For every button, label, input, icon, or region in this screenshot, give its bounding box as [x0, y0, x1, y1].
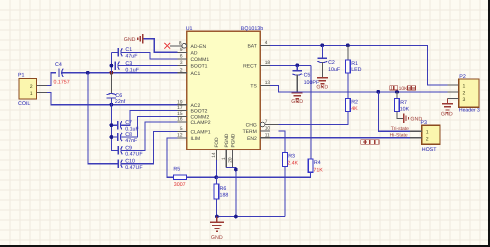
capacitor C9	[118, 145, 143, 157]
resistor R3	[283, 153, 299, 167]
wire FOD pin to node	[215, 160, 217, 177]
U1 pin 16 stub	[177, 117, 187, 123]
svg-text:47nF: 47nF	[125, 138, 138, 144]
wire AC2 bus down to C7/C8/C9	[111, 105, 117, 151]
svg-text:R7: R7	[400, 100, 407, 106]
wire C9 to CLAMP2 (pin 16)	[121, 122, 177, 150]
svg-text:18: 18	[265, 60, 271, 66]
wire R5 to FOD node	[186, 176, 216, 178]
svg-text:4K: 4K	[351, 106, 358, 112]
wire PGND pins to GND rail	[226, 167, 236, 216]
ground GND (under C5)	[291, 93, 303, 105]
U1 pin 4 stub	[260, 40, 270, 46]
connector P1 (COIL)	[18, 73, 37, 107]
wire C8 to COMM2 (pin 15)	[121, 116, 178, 137]
U1 pin 20 (PGND) stub	[227, 150, 233, 168]
svg-text:C5: C5	[304, 73, 311, 79]
U1 pin 6 stub	[178, 54, 187, 60]
svg-text:TS: TS	[250, 84, 257, 90]
U1 pin 7 stub	[260, 119, 278, 127]
no-connect X on pin 8	[164, 43, 170, 49]
wire RECT (pin 18)	[270, 64, 311, 66]
wire C3 to BOOT1 (pin 3)	[118, 65, 177, 67]
svg-text:13: 13	[265, 80, 271, 86]
svg-text:CHG: CHG	[246, 123, 257, 129]
svg-text:GND: GND	[316, 84, 328, 90]
P1 pin 2 stub	[37, 84, 48, 86]
svg-text:COMM1: COMM1	[191, 57, 210, 63]
svg-text:0.47UF: 0.47UF	[125, 152, 143, 158]
svg-text:LED: LED	[351, 67, 361, 73]
capacitor C4	[54, 62, 70, 86]
wire R3 to GND rail	[284, 167, 286, 217]
capacitor C6 (AC1-AC2)	[107, 73, 126, 105]
svg-text:20: 20	[227, 157, 233, 163]
svg-text:R5: R5	[173, 166, 180, 172]
U1 left pin names	[191, 44, 211, 142]
wire BAT to R1	[347, 45, 349, 60]
svg-text:BOOT1: BOOT1	[191, 64, 208, 70]
wire R6 bottom to GND rail	[215, 199, 217, 217]
svg-text:2: 2	[30, 84, 33, 90]
ground GND (under C2)	[316, 78, 328, 91]
svg-text:1: 1	[426, 129, 429, 135]
svg-text:GND: GND	[441, 111, 453, 117]
svg-text:2: 2	[426, 137, 429, 143]
wire RECT to R4	[310, 65, 312, 159]
wire R7 to GND bar	[397, 112, 403, 119]
wire bus C1/C3 to AC1	[110, 52, 112, 72]
U1 pin 17 stub	[177, 105, 187, 111]
P1 pin 1 stub	[37, 92, 48, 94]
wire GND to AD (pin 9)	[144, 39, 178, 53]
svg-text:11: 11	[265, 132, 270, 138]
U1 pin 15 stub	[177, 111, 187, 117]
svg-text:3007: 3007	[174, 182, 186, 188]
wire C1 to COMM1 (pin 6)	[121, 52, 177, 59]
U1 pin 18 stub	[260, 60, 270, 66]
svg-text:P2: P2	[459, 74, 466, 80]
svg-text:0.1uF: 0.1uF	[125, 67, 139, 73]
svg-text:0.1757: 0.1757	[54, 80, 70, 86]
wire C7 to BOOT2 (pin 17)	[121, 111, 178, 126]
svg-text:Tri-state: Tri-state	[391, 126, 409, 132]
svg-text:2: 2	[463, 90, 466, 96]
wire C10 to CLAMP1 (pin 5)	[121, 131, 177, 163]
junction TS/P3 branch	[376, 90, 380, 94]
U1 pin 9 stub	[178, 47, 187, 53]
junction GND rail / PGND	[234, 215, 238, 219]
svg-text:16: 16	[177, 117, 183, 123]
svg-text:R6: R6	[220, 186, 227, 192]
wire FOD node to R4 bottom	[216, 172, 310, 177]
svg-text:TERM: TERM	[243, 129, 257, 135]
wire P1.1 to AC2 net (pin 19)	[47, 93, 177, 105]
wire P1.2 to C4	[47, 73, 56, 86]
svg-text:17: 17	[177, 105, 183, 111]
ground GND (power bar, right of R7)	[404, 114, 423, 123]
capacitor C2	[318, 45, 341, 77]
svg-text:PGND: PGND	[231, 133, 237, 147]
svg-text:AC1: AC1	[191, 71, 201, 77]
wire TS to R7	[396, 92, 398, 99]
svg-text:4: 4	[265, 40, 268, 46]
svg-text:1: 1	[30, 91, 33, 97]
svg-text:AD-EN: AD-EN	[191, 44, 207, 50]
svg-text:C4: C4	[55, 62, 62, 68]
svg-text:1: 1	[463, 83, 466, 89]
resistor R1	[346, 60, 362, 73]
U1 pin 11 stub	[260, 132, 270, 138]
svg-text:R4: R4	[314, 160, 321, 166]
U1 pin 3 stub	[178, 60, 187, 66]
svg-text:10uF: 10uF	[328, 67, 341, 73]
svg-text:RECT: RECT	[243, 63, 257, 69]
wire P2.3 to GND	[446, 98, 448, 103]
capacitor C7	[111, 120, 139, 132]
svg-text:BAT: BAT	[247, 43, 256, 49]
svg-text:3: 3	[180, 60, 183, 66]
junction TS/R7	[395, 90, 399, 94]
wire TS (pin 13) to P2.2	[270, 85, 447, 92]
svg-text:22nf: 22nf	[115, 99, 126, 105]
svg-text:47uF: 47uF	[125, 54, 138, 60]
U1 pin 2 stub	[178, 67, 187, 73]
svg-text:U1: U1	[186, 26, 193, 32]
resistor R2	[346, 99, 359, 113]
svg-text:8: 8	[179, 40, 182, 46]
resistor R4	[308, 159, 323, 173]
svg-text:0.47UF: 0.47UF	[125, 165, 143, 171]
svg-text:PGND: PGND	[224, 133, 230, 147]
wire EN2 (pin 11) to P3.2	[270, 137, 410, 139]
svg-text:71K: 71K	[313, 167, 323, 173]
ground GND (power bar, top left)	[124, 34, 143, 44]
capacitor C3	[115, 61, 140, 73]
capacitor C10	[118, 159, 143, 171]
ground GND (earth, bottom)	[210, 217, 224, 242]
svg-text:2.4K: 2.4K	[287, 161, 298, 167]
svg-text:COIL: COIL	[18, 101, 30, 107]
svg-text:R2: R2	[351, 99, 358, 105]
capacitor C1	[111, 47, 138, 59]
junction AC2/C6/bus	[110, 103, 114, 107]
U1 pin 13 stub	[260, 80, 270, 86]
svg-text:6: 6	[180, 54, 183, 60]
svg-text:12: 12	[177, 132, 183, 138]
svg-text:P3: P3	[421, 120, 428, 126]
svg-text:C2: C2	[328, 60, 335, 66]
svg-text:GND: GND	[124, 37, 136, 43]
P2 pin 1 stub	[447, 84, 458, 86]
svg-text:10: 10	[265, 126, 271, 132]
svg-text:P1: P1	[18, 73, 25, 79]
capacitor C8	[111, 132, 138, 144]
wire R6 top	[215, 177, 217, 184]
P3 pin 2 stub	[410, 137, 422, 139]
svg-text:R3: R3	[288, 154, 295, 160]
svg-text:9: 9	[180, 47, 183, 53]
U1 pin 8 (AD-EN) stub with bubble	[170, 40, 187, 48]
annotation high-level text	[361, 140, 379, 144]
svg-text:19: 19	[177, 99, 183, 105]
ground GND (under P2 pin 3)	[441, 104, 453, 118]
U1 pin 19 stub	[177, 99, 187, 105]
svg-text:5: 5	[180, 126, 183, 132]
P3 pin 1 stub	[410, 130, 422, 132]
svg-text:Header 3: Header 3	[459, 108, 480, 114]
wire GND rail	[217, 216, 285, 218]
svg-text:BQ1013b: BQ1013b	[241, 26, 263, 32]
wire R1 to R2	[347, 73, 349, 99]
U1 right pin names	[243, 43, 258, 141]
U1 pin 10 stub	[260, 126, 270, 132]
svg-text:14: 14	[211, 152, 217, 158]
svg-text:Hi-State: Hi-State	[390, 133, 408, 139]
connector P2 (Header 3)	[459, 74, 480, 114]
svg-text:CLAMP2: CLAMP2	[191, 120, 211, 126]
U1 pin 5 stub	[178, 126, 187, 132]
svg-text:1: 1	[221, 157, 227, 160]
wire ILIM (pin 12) to R5	[167, 138, 178, 177]
wire AC1 net: C4 to pin 2	[62, 72, 178, 74]
wire TERM (pin 10) to R3	[279, 131, 285, 152]
U1 pin 14 (FOD) stub	[211, 150, 217, 161]
svg-text:ILIM: ILIM	[191, 136, 201, 142]
svg-text:AD: AD	[191, 50, 198, 56]
svg-text:EN2: EN2	[247, 136, 257, 142]
svg-text:2: 2	[180, 67, 183, 73]
svg-text:HOST: HOST	[422, 147, 437, 153]
junction AC1/C10 branch	[86, 71, 90, 75]
junction C3/bus	[110, 64, 114, 68]
junction RECT/C5	[295, 63, 299, 67]
svg-text:CLAMP1: CLAMP1	[191, 129, 211, 135]
svg-text:10K: 10K	[400, 107, 410, 113]
wire BAT (pin 4) to P2.1	[270, 45, 447, 85]
P2 pin 3 stub	[447, 97, 458, 99]
resistor R6	[214, 184, 228, 199]
wire TS branch to P3.1	[378, 92, 410, 131]
U1 pin 12 stub	[177, 132, 187, 138]
sheet border	[488, 0, 490, 247]
junction GND rail / R6	[215, 215, 219, 219]
svg-text:3: 3	[463, 97, 466, 103]
junction PGND corner	[234, 168, 238, 172]
capacitor C5	[292, 65, 320, 92]
svg-text:15: 15	[177, 111, 183, 117]
P2 pin 2 stub	[447, 91, 458, 93]
resistor R7	[395, 98, 410, 112]
junction BAT/C2	[320, 43, 324, 47]
U1 pin 1 (PGND) stub	[221, 150, 227, 168]
svg-text:7: 7	[265, 119, 268, 125]
svg-text:10K: 10K	[399, 86, 409, 92]
svg-text:GND: GND	[291, 99, 303, 105]
U1 bottom pin names FOD/PGND/PGND	[214, 133, 236, 147]
annotation 10K resistor text	[390, 86, 416, 92]
connector P3 (HOST)	[421, 120, 441, 153]
resistor R5	[173, 166, 186, 188]
junction AC1/C6/bus	[110, 71, 114, 75]
junction C8/bus	[110, 135, 114, 139]
junction BAT/R1	[346, 43, 350, 47]
svg-text:188: 188	[220, 193, 229, 199]
svg-text:GND: GND	[211, 235, 223, 241]
junction FOD node	[214, 175, 218, 179]
wire R2 to CHG (pin 7)	[279, 111, 348, 124]
wire C10 to AC1 branch	[88, 73, 118, 164]
junction C7/bus	[110, 123, 114, 127]
op-amp U1 BQ51013b IC body	[186, 26, 264, 150]
svg-text:FOD: FOD	[214, 137, 220, 148]
